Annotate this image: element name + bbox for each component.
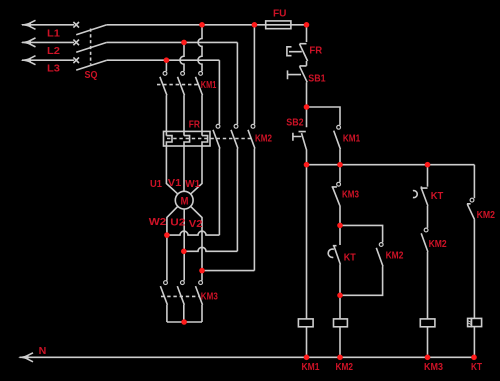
switch SQ linkage dashed bbox=[90, 29, 92, 65]
junction dot KM3 NC bottom bbox=[337, 223, 343, 229]
FR heater element pole2 and motor lead V1 bbox=[184, 136, 190, 192]
FR heater element pole1 and motor lead U1 bbox=[166, 136, 177, 194]
svg-text:KT: KT bbox=[344, 253, 356, 264]
svg-text:FR: FR bbox=[309, 46, 323, 57]
contactor KM1 pole 2 bbox=[178, 72, 185, 136]
wire L2 drop to KM1 pole2 with hop bbox=[180, 42, 184, 71]
svg-text:FU: FU bbox=[273, 9, 287, 20]
wire L3 drop to KM1 pole1 bbox=[165, 60, 167, 71]
thermal relay FR box bbox=[164, 131, 211, 146]
svg-text:KM1: KM1 bbox=[302, 362, 320, 373]
wire FU to FR contact bbox=[306, 25, 308, 42]
svg-text:W2: W2 bbox=[149, 217, 167, 228]
contactor KM1 pole 1 bbox=[160, 72, 167, 136]
junction dot W2 bbox=[164, 232, 170, 238]
wire L2 to KM2 pole2 bbox=[236, 42, 238, 124]
supply line L3 arrow bbox=[21, 56, 75, 65]
junction dot rail KT bbox=[471, 355, 477, 361]
wire W2 junction to KM2 pole1 with hops bbox=[167, 231, 220, 235]
neutral rail N bbox=[18, 353, 474, 362]
KM2 auxiliary NO contact (parallel) bbox=[340, 243, 383, 296]
wire U2 junction to KM2 pole2 with hop bbox=[184, 247, 238, 251]
junction dot rail KM2 bbox=[337, 355, 343, 361]
svg-text:KT: KT bbox=[471, 362, 482, 373]
svg-text:SQ: SQ bbox=[85, 70, 98, 81]
motor bottom lead U2 bbox=[183, 209, 185, 281]
coil KM3 bbox=[420, 319, 435, 357]
FR to KM2 linkage dashed bbox=[167, 138, 253, 140]
junction dot star point bbox=[181, 319, 187, 325]
wire L1 bus bbox=[107, 24, 255, 26]
contactor KM1 pole 3 bbox=[196, 72, 203, 136]
wire KM2 NC branch bbox=[473, 165, 475, 199]
junction dot KT/KM2 rejoin bbox=[337, 293, 343, 299]
contactor KM3 pole 3 bbox=[196, 281, 203, 322]
wire V2 junction to KM2 pole3 bbox=[202, 270, 254, 272]
svg-text:N: N bbox=[39, 346, 47, 357]
wire KT contact to rejoin dot bbox=[339, 265, 341, 296]
junction dot L2 bbox=[181, 40, 187, 46]
wire KM1 coil branch bbox=[306, 165, 308, 319]
svg-text:V1: V1 bbox=[168, 178, 182, 189]
KT delayed NC contact (right) bbox=[413, 186, 428, 206]
star point bar bbox=[167, 321, 202, 323]
switch SQ pole 1 fixed contact x bbox=[73, 22, 79, 28]
svg-text:V2: V2 bbox=[189, 219, 203, 230]
contactor KM2 pole 2 bbox=[231, 124, 238, 251]
contactor KM1 linkage dashed bbox=[157, 84, 199, 86]
wire L2 bus bbox=[107, 41, 238, 43]
junction dot bus KT branch bbox=[425, 162, 431, 168]
motor M circle bbox=[175, 191, 193, 209]
svg-text:KM3: KM3 bbox=[201, 292, 218, 303]
svg-text:W1: W1 bbox=[185, 179, 200, 190]
wire SB1 to junction bbox=[306, 82, 308, 107]
svg-text:U2: U2 bbox=[170, 217, 185, 228]
KM1 auxiliary NO contact bbox=[334, 125, 341, 164]
control bus wire bbox=[307, 164, 475, 166]
supply line L1 arrow bbox=[21, 20, 75, 29]
junction dot SB1/SB2 bbox=[304, 104, 310, 110]
wire KT branch drop bbox=[427, 165, 429, 187]
junction dot V2 bbox=[199, 268, 205, 274]
svg-text:KM1: KM1 bbox=[343, 134, 361, 145]
FR heater element pole3 and motor lead W1 bbox=[191, 136, 208, 194]
KM3 NC interlock contact bbox=[332, 165, 341, 226]
coil KM1 bbox=[298, 319, 313, 357]
fuse FU box bbox=[254, 21, 306, 29]
wire L1 to KM2 pole3 bbox=[253, 25, 255, 125]
KM2 auxiliary NO contact (KM3 branch) bbox=[421, 228, 428, 319]
junction dot bus KM1 aux bbox=[337, 162, 343, 168]
contactor KM2 pole 3 bbox=[248, 124, 255, 270]
wire L3 bus bbox=[107, 59, 220, 61]
junction dot L1/KM1 bbox=[199, 22, 205, 28]
wire split to KM2 aux bbox=[340, 225, 383, 242]
contactor KM2 pole 1 bbox=[213, 124, 220, 235]
junction dot rail KM3 bbox=[425, 355, 431, 361]
switch SQ pole 3 fixed contact x bbox=[73, 57, 79, 63]
wire KT to KM2 aux bbox=[427, 206, 429, 228]
switch SQ pole 2 fixed contact x bbox=[73, 40, 79, 46]
svg-text:KM2: KM2 bbox=[477, 210, 496, 221]
junction dot bus left bbox=[304, 162, 310, 168]
svg-text:SB1: SB1 bbox=[308, 74, 326, 85]
switch SQ pole 2 blade bbox=[76, 42, 107, 52]
svg-text:KT: KT bbox=[431, 191, 444, 202]
junction dot L3 bbox=[164, 57, 170, 63]
stop button SB1 NC bbox=[288, 66, 308, 82]
start button SB2 NO bbox=[293, 107, 307, 165]
svg-text:FR: FR bbox=[189, 119, 201, 130]
wire branch to KM1 aux bbox=[307, 107, 341, 125]
svg-text:L2: L2 bbox=[47, 46, 60, 57]
svg-text:KM3: KM3 bbox=[342, 190, 359, 201]
contactor KM3 pole 1 bbox=[160, 281, 167, 322]
svg-text:KM1: KM1 bbox=[201, 80, 217, 91]
wire FR to SB1 bbox=[306, 61, 308, 66]
switch SQ pole 3 blade bbox=[76, 60, 107, 70]
svg-text:KM2: KM2 bbox=[255, 134, 272, 145]
svg-text:KM2: KM2 bbox=[336, 362, 354, 373]
KM2 NC interlock contact bbox=[467, 198, 475, 318]
svg-text:KM2: KM2 bbox=[429, 239, 447, 250]
junction dot FU/control bbox=[304, 22, 310, 28]
FR NC contact (control) bbox=[287, 44, 308, 61]
contactor KM3 linkage dashed bbox=[161, 295, 200, 297]
wire L3 to KM2 pole1 bbox=[218, 60, 220, 124]
svg-text:SB2: SB2 bbox=[286, 118, 304, 129]
junction dot L1/FU bbox=[252, 22, 258, 28]
junction dot rail KM1 bbox=[304, 355, 310, 361]
junction dot U2 bbox=[181, 249, 187, 255]
svg-text:U1: U1 bbox=[150, 179, 162, 190]
svg-text:L1: L1 bbox=[47, 29, 60, 40]
KT delayed contact (left) bbox=[328, 225, 340, 264]
coil KM2 bbox=[334, 319, 348, 357]
svg-text:KM3: KM3 bbox=[424, 362, 443, 373]
motor bottom lead W2 bbox=[167, 207, 178, 281]
switch SQ pole 1 blade bbox=[76, 25, 107, 35]
motor bottom lead V2 bbox=[191, 207, 202, 281]
svg-text:KM2: KM2 bbox=[386, 251, 404, 262]
svg-text:M: M bbox=[181, 195, 189, 207]
supply line L2 arrow bbox=[21, 38, 75, 47]
wire L1 drop to KM1 pole3 with hops bbox=[198, 25, 202, 72]
coil KT with delay block bbox=[468, 318, 482, 357]
contactor KM3 pole 2 bbox=[177, 281, 184, 322]
wire rejoin to KM2 coil bbox=[339, 295, 341, 319]
svg-text:L3: L3 bbox=[47, 64, 60, 75]
